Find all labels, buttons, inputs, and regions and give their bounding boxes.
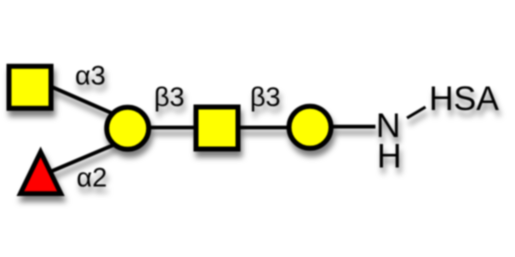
svg-text:β3: β3	[250, 82, 281, 112]
svg-text:α2: α2	[77, 163, 108, 193]
svg-text:β3: β3	[154, 82, 185, 112]
svg-text:HSA: HSA	[429, 80, 499, 118]
svg-text:α3: α3	[75, 61, 106, 91]
svg-text:H: H	[377, 138, 402, 176]
